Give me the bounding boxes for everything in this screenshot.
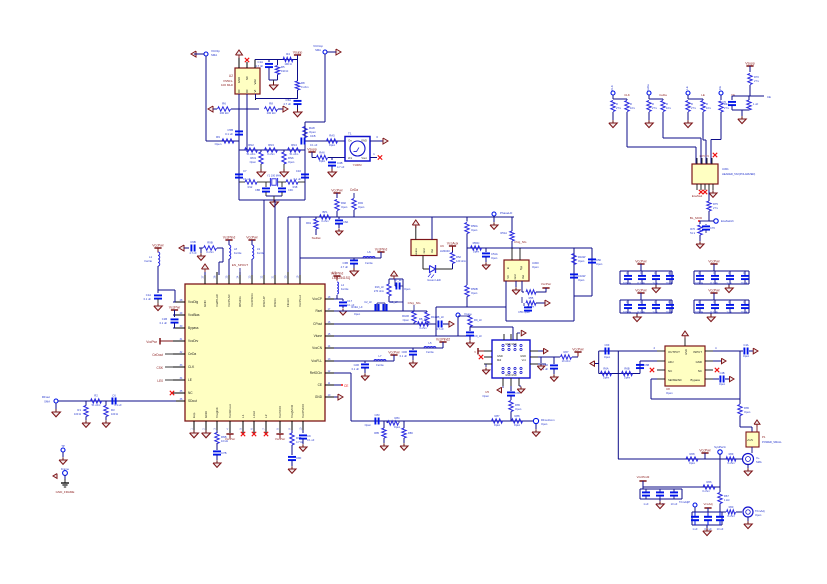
svg-text:0.1 uF: 0.1 uF bbox=[144, 297, 152, 301]
svg-text:Open: Open bbox=[541, 422, 548, 426]
svg-text:C: C bbox=[640, 272, 642, 275]
svg-text:VccPwr: VccPwr bbox=[331, 189, 343, 193]
svg-text:100 pF: 100 pF bbox=[623, 310, 631, 314]
svg-text:Vdd: Vdd bbox=[253, 79, 257, 84]
svg-text:27 k: 27 k bbox=[691, 106, 697, 110]
svg-text:R65: R65 bbox=[744, 406, 749, 410]
svg-text:U9: U9 bbox=[440, 244, 444, 248]
svg-text:VccCP: VccCP bbox=[312, 297, 322, 301]
svg-text:Bypass: Bypass bbox=[188, 326, 199, 330]
svg-text:C: C bbox=[654, 272, 656, 275]
svg-text:VrefPLAC: VrefPLAC bbox=[215, 293, 219, 307]
svg-text:C1B: C1B bbox=[162, 317, 167, 321]
svg-text:Open: Open bbox=[624, 376, 631, 380]
svg-text:Open: Open bbox=[319, 159, 326, 163]
svg-text:On: On bbox=[348, 139, 352, 143]
svg-text:NC: NC bbox=[188, 391, 193, 395]
svg-text:CE: CE bbox=[718, 86, 722, 90]
svg-text:C: C bbox=[728, 301, 730, 304]
svg-text:R51A: R51A bbox=[501, 231, 508, 235]
svg-text:C: C bbox=[743, 272, 745, 275]
svg-text:Gnd: Gnd bbox=[514, 274, 517, 279]
svg-text:Vtune: Vtune bbox=[314, 334, 323, 338]
svg-text:R68: R68 bbox=[690, 452, 695, 456]
svg-text:RN4: RN4 bbox=[291, 143, 297, 147]
svg-text:0 ohm: 0 ohm bbox=[206, 250, 213, 254]
svg-text:U2: U2 bbox=[229, 74, 233, 78]
svg-text:Open: Open bbox=[689, 461, 696, 465]
svg-text:R70: R70 bbox=[754, 75, 759, 79]
svg-text:C4B: C4B bbox=[719, 371, 724, 375]
svg-text:L6: L6 bbox=[367, 250, 371, 254]
svg-text:C70: C70 bbox=[721, 100, 726, 104]
svg-text:Vsupp: Vsupp bbox=[293, 51, 303, 55]
svg-text:1 uF: 1 uF bbox=[726, 310, 732, 314]
svg-text:VccPwr: VccPwr bbox=[635, 289, 647, 293]
svg-text:U301: U301 bbox=[722, 167, 729, 171]
svg-text:R19A_LF: R19A_LF bbox=[351, 305, 363, 309]
svg-text:C65: C65 bbox=[515, 391, 520, 395]
svg-text:L1: L1 bbox=[149, 255, 152, 259]
svg-text:Open: Open bbox=[354, 312, 361, 316]
svg-text:4.7 nF: 4.7 nF bbox=[189, 251, 197, 255]
svg-text:C6F: C6F bbox=[604, 343, 609, 347]
svg-text:C0R: C0R bbox=[402, 350, 407, 354]
svg-text:4.7 uF: 4.7 uF bbox=[341, 265, 349, 269]
svg-text:L9: L9 bbox=[257, 247, 260, 251]
svg-text:R8_LF: R8_LF bbox=[419, 317, 427, 321]
svg-text:C6B: C6B bbox=[343, 261, 349, 265]
svg-text:10 k: 10 k bbox=[666, 106, 672, 110]
svg-text:10 k: 10 k bbox=[706, 106, 712, 110]
svg-text:Chrg_Nfo: Chrg_Nfo bbox=[408, 301, 421, 305]
svg-text:R12: R12 bbox=[248, 185, 253, 189]
svg-text:GND GND: GND GND bbox=[505, 374, 517, 377]
svg-text:Ferrite: Ferrite bbox=[145, 259, 153, 263]
svg-text:R: R bbox=[706, 102, 708, 106]
svg-text:GND: GND bbox=[497, 354, 503, 358]
svg-text:GND_FRAME: GND_FRAME bbox=[56, 490, 75, 494]
svg-text:RPstDiv: RPstDiv bbox=[238, 296, 242, 307]
svg-text:C17: C17 bbox=[347, 299, 353, 303]
svg-text:R65: R65 bbox=[515, 403, 520, 407]
svg-text:100 pF: 100 pF bbox=[623, 281, 631, 285]
svg-text:SwDat: SwDat bbox=[312, 236, 321, 240]
svg-text:100 Ω: 100 Ω bbox=[74, 412, 81, 416]
svg-text:U5: U5 bbox=[485, 390, 489, 394]
svg-text:VCOop: VCOop bbox=[313, 44, 323, 48]
svg-text:VccPwr: VccPwr bbox=[388, 351, 400, 355]
svg-text:Frame: Frame bbox=[61, 467, 70, 471]
svg-text:Open: Open bbox=[471, 291, 478, 295]
svg-text:VccDig: VccDig bbox=[188, 300, 198, 304]
svg-text:R6B: R6B bbox=[624, 367, 629, 371]
svg-text:4.7 uF: 4.7 uF bbox=[283, 102, 291, 106]
svg-text:CeDa: CeDa bbox=[646, 84, 650, 92]
svg-text:270 ohm: 270 ohm bbox=[374, 289, 384, 293]
svg-text:C76: C76 bbox=[710, 226, 715, 230]
svg-text:Ferrite: Ferrite bbox=[234, 251, 242, 255]
svg-text:1 uF: 1 uF bbox=[643, 502, 649, 506]
svg-text:0.1 uF: 0.1 uF bbox=[637, 310, 645, 314]
svg-text:C7_LF: C7_LF bbox=[394, 278, 402, 282]
svg-text:U8: U8 bbox=[666, 387, 670, 391]
svg-text:51 ohm: 51 ohm bbox=[92, 403, 101, 407]
svg-text:R3: R3 bbox=[111, 408, 115, 412]
svg-text:L2: L2 bbox=[264, 414, 268, 418]
svg-text:C: C bbox=[654, 301, 656, 304]
svg-text:Gnd: Gnd bbox=[423, 248, 426, 253]
svg-text:VccPVCO: VccPVCO bbox=[301, 403, 305, 418]
svg-text:V+: V+ bbox=[756, 456, 760, 460]
svg-text:GND: GND bbox=[684, 349, 688, 355]
svg-text:Open: Open bbox=[358, 205, 365, 209]
svg-text:C9F: C9F bbox=[296, 456, 302, 460]
svg-text:C2R: C2R bbox=[354, 363, 359, 367]
svg-text:V: V bbox=[474, 350, 476, 354]
svg-text:Chrg_Nfo: Chrg_Nfo bbox=[514, 240, 527, 244]
svg-text:GND: GND bbox=[203, 300, 207, 308]
svg-text:0.1 uF: 0.1 uF bbox=[160, 321, 168, 325]
svg-text:ADJ: ADJ bbox=[668, 360, 674, 364]
svg-text:GND: GND bbox=[361, 139, 367, 143]
svg-text:Open: Open bbox=[743, 354, 750, 358]
svg-text:LE: LE bbox=[701, 93, 705, 97]
svg-text:VregFilt: VregFilt bbox=[215, 407, 219, 418]
svg-text:L5: L5 bbox=[429, 341, 432, 345]
svg-text:Ferrite: Ferrite bbox=[341, 287, 349, 291]
svg-text:SMA: SMA bbox=[211, 53, 217, 57]
svg-text:Out: Out bbox=[522, 275, 525, 279]
svg-text:C10: C10 bbox=[296, 169, 302, 173]
svg-text:Vtune: Vtune bbox=[464, 312, 472, 316]
svg-text:Open: Open bbox=[394, 425, 401, 429]
svg-text:C83: C83 bbox=[375, 413, 380, 417]
svg-text:C: C bbox=[698, 301, 700, 304]
svg-text:VccPwr: VccPwr bbox=[572, 348, 584, 352]
svg-text:C9B: C9B bbox=[190, 240, 196, 244]
svg-text:GND: GND bbox=[237, 77, 241, 83]
svg-text:GND: GND bbox=[315, 395, 323, 399]
svg-text:VccPwr: VccPwr bbox=[708, 260, 720, 264]
svg-text:10 uF: 10 uF bbox=[741, 310, 748, 314]
svg-text:27 k: 27 k bbox=[754, 79, 760, 83]
svg-text:EN_SPOUT: EN_SPOUT bbox=[232, 263, 248, 267]
svg-text:C50: C50 bbox=[596, 258, 601, 262]
svg-text:RFoutCom: RFoutCom bbox=[541, 418, 555, 422]
svg-text:R6A: R6A bbox=[603, 367, 608, 371]
svg-text:SMA: SMA bbox=[756, 460, 762, 464]
svg-text:RN2: RN2 bbox=[248, 143, 254, 147]
svg-text:R67: R67 bbox=[564, 350, 569, 354]
svg-text:CLK: CLK bbox=[624, 93, 630, 97]
svg-text:LE: LE bbox=[188, 378, 192, 382]
svg-text:R: R bbox=[630, 102, 632, 106]
svg-text:C: C bbox=[728, 272, 730, 275]
svg-text:VccOSCin: VccOSCin bbox=[250, 293, 254, 307]
svg-text:Open: Open bbox=[494, 423, 501, 427]
svg-text:C1B: C1B bbox=[310, 134, 316, 138]
svg-text:R55: R55 bbox=[529, 296, 534, 300]
svg-text:1 kΩ: 1 kΩ bbox=[724, 498, 729, 502]
svg-text:Open: Open bbox=[341, 205, 348, 209]
svg-text:C: C bbox=[626, 272, 628, 275]
svg-text:VccVCO: VccVCO bbox=[278, 406, 282, 418]
svg-text:R10W: R10W bbox=[578, 255, 586, 259]
svg-text:VccPlnd2: VccPlnd2 bbox=[436, 338, 450, 342]
svg-text:R75: R75 bbox=[713, 202, 718, 206]
svg-text:RA5: RA5 bbox=[329, 134, 335, 138]
svg-text:10 uF: 10 uF bbox=[717, 527, 724, 531]
svg-text:VccDrv: VccDrv bbox=[188, 339, 199, 343]
svg-text:VccPLAC: VccPLAC bbox=[227, 293, 231, 307]
svg-text:TrimAdjP: TrimAdjP bbox=[679, 500, 690, 504]
svg-text:100 kΩ: 100 kΩ bbox=[267, 111, 276, 115]
svg-text:1 uF: 1 uF bbox=[652, 310, 658, 314]
svg-text:R60: R60 bbox=[729, 505, 734, 509]
svg-text:1 uF: 1 uF bbox=[726, 281, 732, 285]
svg-text:VccAux: VccAux bbox=[447, 242, 459, 246]
svg-text:4.7 nF: 4.7 nF bbox=[436, 327, 444, 331]
svg-text:10 uF: 10 uF bbox=[666, 281, 673, 285]
svg-text:U300: U300 bbox=[532, 261, 539, 265]
svg-text:T1: T1 bbox=[348, 132, 352, 136]
svg-text:R1: R1 bbox=[77, 408, 81, 412]
svg-text:Ferrite: Ferrite bbox=[365, 261, 373, 265]
svg-text:C8_LF: C8_LF bbox=[436, 315, 444, 319]
svg-text:Vsupp: Vsupp bbox=[307, 148, 317, 152]
svg-text:100 pF: 100 pF bbox=[695, 310, 703, 314]
svg-text:Mid: Mid bbox=[497, 358, 502, 362]
svg-text:C8B: C8B bbox=[255, 188, 260, 192]
svg-text:1 uF: 1 uF bbox=[753, 102, 759, 106]
svg-text:C6B: C6B bbox=[644, 363, 649, 367]
svg-text:0.1 uF: 0.1 uF bbox=[710, 310, 718, 314]
svg-text:LE: LE bbox=[685, 86, 689, 90]
svg-text:R6: R6 bbox=[222, 102, 226, 106]
svg-text:Lmid: Lmid bbox=[252, 411, 256, 418]
svg-text:VccPwr: VccPwr bbox=[246, 236, 258, 240]
svg-text:R52: R52 bbox=[456, 255, 461, 259]
svg-text:R76: R76 bbox=[690, 227, 695, 231]
svg-text:LM4040: LM4040 bbox=[440, 249, 450, 253]
svg-text:R93: R93 bbox=[358, 201, 363, 205]
svg-text:C: C bbox=[713, 301, 715, 304]
svg-text:Open: Open bbox=[515, 407, 522, 411]
svg-text:Open: Open bbox=[578, 278, 585, 282]
svg-text:27 k: 27 k bbox=[652, 106, 658, 110]
svg-text:C: C bbox=[743, 301, 745, 304]
svg-text:VccPwr: VccPwr bbox=[635, 260, 647, 264]
svg-text:Open: Open bbox=[403, 318, 410, 322]
svg-text:GND GND: GND GND bbox=[505, 343, 517, 346]
svg-text:Open: Open bbox=[404, 287, 411, 291]
svg-text:C55 Open: C55 Open bbox=[518, 310, 530, 314]
svg-text:0 ohm: 0 ohm bbox=[727, 514, 734, 518]
svg-text:BL_MOD: BL_MOD bbox=[690, 216, 703, 220]
svg-text:VccPlnd: VccPlnd bbox=[331, 272, 344, 276]
svg-text:+5.2V: +5.2V bbox=[747, 439, 754, 442]
svg-text:R18: R18 bbox=[293, 185, 298, 189]
svg-text:VccPwr: VccPwr bbox=[541, 282, 551, 286]
svg-text:L8: L8 bbox=[234, 247, 237, 251]
svg-text:27 k: 27 k bbox=[724, 106, 730, 110]
svg-text:Open: Open bbox=[604, 355, 611, 359]
svg-text:R10R: R10R bbox=[402, 314, 409, 318]
svg-text:R50A: R50A bbox=[471, 224, 478, 228]
svg-text:Vt: Vt bbox=[253, 89, 257, 92]
svg-text:CLK: CLK bbox=[188, 365, 195, 369]
svg-text:Open: Open bbox=[719, 382, 726, 386]
svg-text:VccPwr: VccPwr bbox=[146, 340, 158, 344]
svg-text:C1A: C1A bbox=[258, 60, 264, 64]
svg-text:Vout: Vout bbox=[361, 156, 366, 160]
svg-text:TP: TP bbox=[61, 444, 65, 448]
svg-text:Vcc: Vcc bbox=[522, 358, 527, 362]
svg-text:R69: R69 bbox=[729, 452, 734, 456]
svg-text:NC: NC bbox=[245, 76, 249, 80]
svg-text:VccBias: VccBias bbox=[188, 313, 200, 317]
svg-text:R: R bbox=[652, 102, 654, 106]
svg-text:Open: Open bbox=[288, 160, 295, 164]
svg-text:VccAdj: VccAdj bbox=[704, 502, 713, 506]
svg-text:51 k: 51 k bbox=[690, 231, 696, 235]
svg-text:10 uF: 10 uF bbox=[741, 281, 748, 285]
svg-text:0.1 uF: 0.1 uF bbox=[225, 132, 233, 136]
svg-text:C8A: C8A bbox=[343, 220, 348, 224]
svg-text:0.1 uF: 0.1 uF bbox=[114, 403, 122, 407]
svg-text:Open: Open bbox=[603, 376, 610, 380]
svg-text:Ferrite: Ferrite bbox=[426, 350, 434, 354]
svg-text:R9: R9 bbox=[216, 135, 220, 139]
svg-text:R85: R85 bbox=[374, 431, 379, 435]
svg-text:C: C bbox=[713, 272, 715, 275]
svg-text:190 Ω: 190 Ω bbox=[284, 62, 291, 66]
svg-text:GND: GND bbox=[204, 410, 208, 418]
svg-text:R87: R87 bbox=[495, 414, 500, 418]
svg-text:CE: CE bbox=[344, 384, 348, 388]
svg-text:Open: Open bbox=[482, 394, 489, 398]
svg-text:C4B: C4B bbox=[337, 161, 343, 165]
svg-text:CPout: CPout bbox=[313, 322, 322, 326]
svg-text:0 ohm: 0 ohm bbox=[702, 489, 709, 493]
svg-text:0.1 uF: 0.1 uF bbox=[307, 438, 315, 442]
svg-text:R9B: R9B bbox=[207, 241, 213, 245]
svg-text:POWER_SMALL: POWER_SMALL bbox=[762, 440, 782, 444]
svg-text:VccPwr: VccPwr bbox=[225, 437, 235, 441]
svg-text:Out: Out bbox=[431, 249, 434, 253]
svg-text:C2_LF: C2_LF bbox=[364, 300, 372, 304]
svg-text:VccPwr: VccPwr bbox=[699, 449, 711, 453]
svg-text:C5A: C5A bbox=[286, 98, 292, 102]
svg-text:SDout: SDout bbox=[188, 399, 197, 403]
svg-text:RF: RF bbox=[237, 89, 241, 93]
svg-text:Byp: Byp bbox=[520, 265, 523, 270]
svg-text:C7B: C7B bbox=[221, 451, 227, 455]
svg-text:C: C bbox=[668, 301, 670, 304]
svg-text:VccPwr: VccPwr bbox=[275, 437, 285, 441]
svg-text:RFout: RFout bbox=[42, 395, 50, 399]
svg-text:VccPwr: VccPwr bbox=[152, 244, 164, 248]
svg-text:C10W: C10W bbox=[578, 274, 586, 278]
svg-text:Open: Open bbox=[755, 513, 762, 517]
svg-text:C9: C9 bbox=[307, 434, 311, 438]
svg-text:RA6: RA6 bbox=[319, 151, 325, 155]
svg-text:OSCUP: OSCUP bbox=[262, 296, 266, 307]
svg-text:10 k: 10 k bbox=[630, 106, 636, 110]
svg-text:VccPlnd: VccPlnd bbox=[375, 248, 388, 252]
svg-text:VccPLL2: VccPLL2 bbox=[298, 295, 302, 307]
svg-text:27 k: 27 k bbox=[713, 206, 719, 210]
svg-text:R50C: R50C bbox=[473, 241, 480, 245]
svg-text:GND: GND bbox=[520, 354, 526, 358]
svg-text:R86: R86 bbox=[408, 431, 413, 435]
svg-text:0.1 uF: 0.1 uF bbox=[710, 281, 718, 285]
svg-text:C6: C6 bbox=[112, 394, 116, 398]
svg-text:CeDa: CeDa bbox=[659, 93, 667, 97]
svg-text:INPUT: INPUT bbox=[693, 350, 702, 354]
svg-text:100 kΩ: 100 kΩ bbox=[220, 111, 229, 115]
svg-text:SMA: SMA bbox=[44, 400, 50, 404]
svg-text:Source: Source bbox=[415, 247, 418, 256]
svg-text:1 3 5 7 9: 1 3 5 7 9 bbox=[699, 155, 709, 158]
svg-text:Open: Open bbox=[596, 262, 603, 266]
svg-text:OSCin: OSCin bbox=[273, 298, 277, 307]
svg-text:Y1 100 MHz: Y1 100 MHz bbox=[267, 174, 282, 178]
svg-text:0.1 uF: 0.1 uF bbox=[352, 367, 360, 371]
svg-text:R66: R66 bbox=[707, 480, 712, 484]
svg-text:4.7 uF: 4.7 uF bbox=[337, 165, 345, 169]
svg-text:R16_LF: R16_LF bbox=[375, 285, 385, 289]
svg-text:R2: R2 bbox=[94, 394, 98, 398]
svg-text:VccPlnd3: VccPlnd3 bbox=[637, 475, 650, 479]
svg-text:NC: NC bbox=[668, 369, 672, 373]
svg-text:Open: Open bbox=[365, 423, 372, 427]
svg-text:Open: Open bbox=[514, 423, 521, 427]
svg-text:SysPwrIn: SysPwrIn bbox=[714, 445, 726, 449]
svg-text:0 ohm: 0 ohm bbox=[727, 461, 734, 465]
svg-text:CeDa: CeDa bbox=[350, 188, 358, 192]
svg-text:R9_LF: R9_LF bbox=[474, 318, 482, 322]
svg-text:VregVCO: VregVCO bbox=[290, 404, 294, 418]
svg-text:R8: R8 bbox=[269, 102, 273, 106]
svg-text:VccCN: VccCN bbox=[312, 346, 323, 350]
svg-text:Rset: Rset bbox=[315, 309, 322, 313]
svg-text:C: C bbox=[640, 301, 642, 304]
svg-text:EnaSwitch: EnaSwitch bbox=[721, 219, 734, 223]
svg-text:CLK: CLK bbox=[610, 85, 614, 91]
svg-text:0 ohm: 0 ohm bbox=[267, 152, 274, 156]
svg-text:R67: R67 bbox=[724, 494, 729, 498]
svg-text:L1: L1 bbox=[241, 414, 245, 418]
svg-text:C51A: C51A bbox=[491, 252, 498, 256]
svg-text:Open: Open bbox=[329, 143, 336, 147]
svg-text:120 ohm: 120 ohm bbox=[456, 259, 466, 263]
svg-text:Vcc: Vcc bbox=[348, 156, 353, 160]
svg-text:SD: SD bbox=[507, 275, 510, 279]
svg-text:LE0: LE0 bbox=[157, 379, 163, 383]
svg-text:10 uF: 10 uF bbox=[666, 310, 673, 314]
svg-text:R8: R8 bbox=[301, 81, 305, 85]
svg-text:Open: Open bbox=[250, 160, 257, 164]
svg-text:CeDout: CeDout bbox=[152, 353, 163, 357]
svg-text:C: C bbox=[698, 272, 700, 275]
svg-text:27 k: 27 k bbox=[616, 106, 622, 110]
svg-text:VccRFout: VccRFout bbox=[228, 404, 232, 418]
svg-text:PhaseLD: PhaseLD bbox=[500, 211, 513, 215]
svg-text:C1A: C1A bbox=[146, 293, 151, 297]
svg-text:10 uF: 10 uF bbox=[671, 502, 678, 506]
